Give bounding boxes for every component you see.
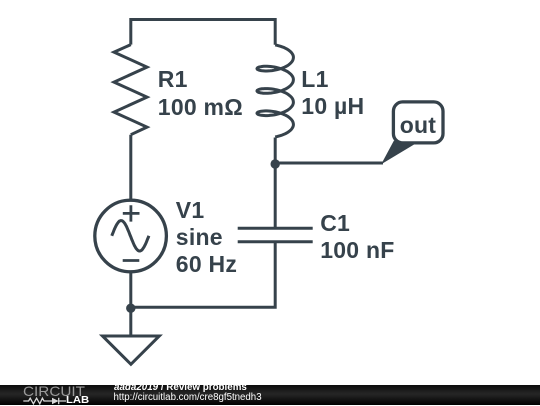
node out junction dot <box>271 159 280 168</box>
voltage source V1 <box>95 200 167 272</box>
label C1 <box>320 210 394 264</box>
wire R1 to V1 <box>129 135 132 201</box>
inductor L1 <box>257 45 293 137</box>
resistor R1 <box>114 45 147 135</box>
wire junction to ground <box>129 307 132 336</box>
wire C1 to bottom <box>131 242 275 307</box>
footer logo glyph <box>22 396 68 406</box>
footer logo CIRCUIT <box>23 385 85 398</box>
wire top <box>131 20 275 45</box>
out flag tail <box>381 141 417 165</box>
node bottom junction dot <box>126 304 135 313</box>
footer line1 <box>114 383 247 393</box>
capacitor C1 <box>238 228 313 242</box>
footer bar <box>0 385 540 406</box>
label L1 <box>301 66 364 120</box>
label R1 <box>158 66 243 120</box>
ground <box>103 336 160 364</box>
wire junction to out <box>275 162 383 165</box>
wire L1 to junction <box>274 138 277 164</box>
footer logo LAB <box>66 396 89 406</box>
label out <box>400 112 437 139</box>
wire V1 to junction <box>129 272 132 307</box>
footer line2 <box>114 393 262 403</box>
label V1 <box>176 197 237 279</box>
node out bubble <box>393 102 443 143</box>
wire junction to C1 <box>274 163 277 228</box>
